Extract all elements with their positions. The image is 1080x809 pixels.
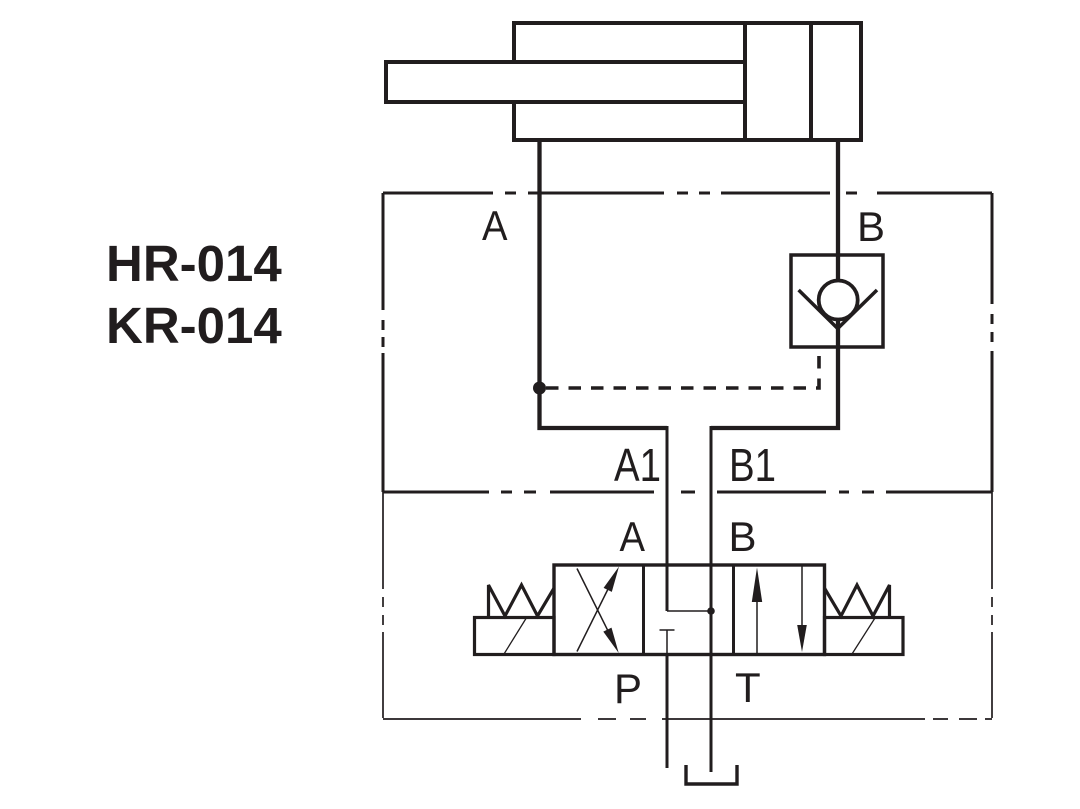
solenoid b box (right) xyxy=(825,618,904,655)
cylinder piston line 2 xyxy=(809,23,813,140)
valve divider left xyxy=(642,565,645,655)
directional valve body xyxy=(554,565,825,655)
subplate boundary box (lower, thin phantom dash-dot) xyxy=(383,492,992,719)
svg-text:A: A xyxy=(482,202,508,249)
wire A1 (down into valve port A) xyxy=(666,426,669,611)
valve center position A-B connector xyxy=(667,610,711,612)
spring right xyxy=(825,585,890,617)
svg-text:B: B xyxy=(857,203,885,250)
wire B1 / T (down through valve to tank line) xyxy=(710,426,713,772)
pilot line junction dot on wire A xyxy=(533,382,546,395)
valve left position crossed arrow 2 (to upper right) xyxy=(577,579,613,652)
svg-text:B: B xyxy=(729,513,757,560)
valve divider right xyxy=(732,565,735,655)
check valve seat V xyxy=(799,290,877,329)
valve right position up arrow xyxy=(756,598,758,654)
solenoid a box (left) xyxy=(475,618,555,655)
svg-text:B1: B1 xyxy=(729,439,776,491)
wire B lower (check valve to step B1) xyxy=(711,345,838,428)
wire B (cylinder port B down to check valve) xyxy=(836,138,840,257)
check valve V1 box xyxy=(791,255,883,347)
valve center blocked P symbol xyxy=(660,630,675,654)
solenoid a slash xyxy=(504,619,526,655)
cylinder piston rod xyxy=(386,62,745,102)
valve center junction dot xyxy=(707,607,715,615)
pilot line (dashed) to check valve xyxy=(546,349,819,388)
valve left position crossed arrow 1 (to lower right) xyxy=(577,569,613,642)
wire A (cylinder port A down and step to A1) xyxy=(540,138,668,428)
solenoid b slash xyxy=(852,618,875,654)
svg-text:KR-014: KR-014 xyxy=(106,297,282,354)
svg-text:HR-014: HR-014 xyxy=(106,235,282,292)
wire P (valve port P down) xyxy=(666,654,669,768)
valve right position down arrow xyxy=(801,566,803,630)
manifold boundary box (upper, phantom dash-dot) xyxy=(383,193,992,492)
svg-text:A: A xyxy=(620,513,646,560)
tank symbol xyxy=(686,765,737,784)
spring left xyxy=(489,585,554,617)
cylinder body xyxy=(514,23,861,140)
svg-text:P: P xyxy=(614,665,642,712)
svg-text:T: T xyxy=(735,664,761,711)
check valve ball xyxy=(819,281,858,320)
wire through check valve xyxy=(836,257,840,345)
cylinder piston line 1 xyxy=(743,23,747,140)
svg-text:A1: A1 xyxy=(614,439,661,491)
